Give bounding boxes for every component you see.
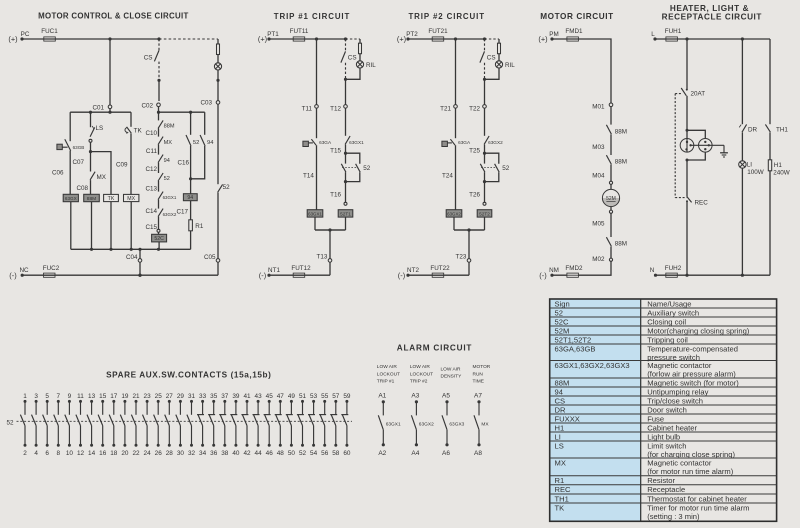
- wire: dashed bus to RIL branch: [346, 38, 361, 40]
- ground symbol: [720, 145, 728, 157]
- svg-text:A5: A5: [442, 392, 450, 399]
- spare aux contact 55/56: [319, 393, 329, 457]
- svg-text:29: 29: [177, 393, 185, 400]
- red indicating lamp RIL (trip2): [485, 54, 516, 80]
- svg-text:18: 18: [110, 450, 118, 457]
- svg-text:MOTOR: MOTOR: [473, 364, 491, 370]
- spare aux contact 23/24: [143, 393, 152, 457]
- svg-text:C11: C11: [146, 148, 158, 155]
- node M02: [592, 247, 612, 263]
- svg-text:63GX1,63GX2,63GX3: 63GX1,63GX2,63GX3: [555, 361, 630, 370]
- svg-text:MX: MX: [481, 421, 489, 427]
- node C04: [126, 249, 142, 277]
- wire: branch B to bottom bus: [91, 202, 93, 250]
- svg-text:MX: MX: [164, 140, 173, 146]
- svg-text:N: N: [650, 267, 655, 274]
- svg-text:94: 94: [555, 387, 563, 396]
- wire: lamp to C03: [217, 80, 219, 100]
- title: motor control & close circuit: [38, 11, 188, 20]
- fuse FUH1: [665, 28, 682, 41]
- svg-text:FMD1: FMD1: [565, 28, 583, 35]
- svg-text:T23: T23: [456, 254, 467, 261]
- svg-text:(forlow air pressure alarm): (forlow air pressure alarm): [647, 370, 736, 379]
- svg-text:M05: M05: [592, 221, 605, 228]
- svg-text:LS: LS: [555, 441, 564, 450]
- svg-text:TRIP #2: TRIP #2: [410, 379, 428, 385]
- svg-text:15: 15: [99, 393, 107, 400]
- svg-text:94: 94: [164, 158, 170, 164]
- svg-text:52: 52: [193, 140, 199, 146]
- wire: 94-box bottom: [189, 146, 205, 180]
- wire: top bus (+) to C01/CS: [22, 37, 161, 40]
- coil MX: [124, 194, 139, 202]
- svg-text:A8: A8: [474, 450, 482, 457]
- svg-text:94: 94: [187, 195, 193, 201]
- node C05: [204, 193, 220, 276]
- fuse FMD1: [565, 28, 583, 41]
- svg-text:16: 16: [99, 450, 107, 457]
- svg-text:41: 41: [243, 393, 251, 400]
- junction below CS: [157, 79, 160, 82]
- svg-text:52T1,52T2: 52T1,52T2: [555, 335, 592, 344]
- svg-text:52C: 52C: [555, 317, 569, 326]
- motor 52M: [602, 184, 619, 210]
- svg-text:34: 34: [199, 450, 207, 457]
- wire: CS to C02: [158, 80, 160, 101]
- contact 52 (branch E): [158, 173, 170, 182]
- wire: top bus PT2: [408, 37, 486, 40]
- svg-text:MX: MX: [555, 458, 566, 467]
- trip-close switch CS (trip2): [480, 39, 496, 79]
- svg-text:FUT21: FUT21: [428, 28, 448, 35]
- spare aux contact 19/20: [120, 393, 129, 457]
- svg-text:35: 35: [210, 393, 218, 400]
- wire: to motor: [610, 165, 612, 181]
- svg-text:Fuse: Fuse: [647, 414, 664, 423]
- svg-text:C01: C01: [92, 105, 104, 112]
- svg-text:A3: A3: [411, 392, 419, 399]
- svg-text:59: 59: [343, 393, 351, 400]
- svg-text:SPARE AUX.SW.CONTACTS (15a,15b: SPARE AUX.SW.CONTACTS (15a,15b): [106, 370, 271, 379]
- wire: T25 junction: [483, 145, 486, 155]
- svg-text:37: 37: [221, 393, 229, 400]
- terminal (+) PT1: [258, 31, 279, 44]
- fuse FUC2: [43, 265, 60, 277]
- wire: heater top rail: [655, 37, 770, 40]
- svg-text:8: 8: [57, 450, 61, 457]
- svg-text:TK: TK: [555, 503, 565, 512]
- coil 52T2: [477, 210, 492, 217]
- svg-text:10: 10: [66, 450, 74, 457]
- svg-text:55: 55: [321, 393, 329, 400]
- svg-text:CS: CS: [348, 55, 357, 62]
- contact 63GX2 (branch E): [158, 209, 177, 217]
- svg-text:(-): (-): [259, 271, 266, 280]
- wire: T11 to 63GA: [316, 108, 318, 138]
- svg-text:58: 58: [332, 450, 340, 457]
- svg-text:C08: C08: [76, 185, 88, 192]
- node T14: [303, 173, 314, 180]
- svg-text:63GA,63GB: 63GA,63GB: [555, 344, 596, 353]
- spare aux contact 35/36: [208, 393, 218, 457]
- resistor (RIL branch trip2): [498, 39, 501, 54]
- svg-text:(+): (+): [258, 35, 267, 44]
- terminal (-) NM: [539, 267, 559, 280]
- terminal (+) PM: [538, 31, 558, 44]
- wire: motor to 88M-3: [610, 213, 612, 237]
- wire: 52C to bottom bus: [158, 242, 160, 249]
- wire: to coil 52T1: [344, 182, 347, 206]
- spare aux contact 15/16: [98, 393, 107, 457]
- spare aux contact 11/12: [76, 393, 85, 457]
- svg-text:52C: 52C: [154, 236, 164, 242]
- svg-text:54: 54: [310, 450, 318, 457]
- svg-text:Name/Usage: Name/Usage: [647, 299, 691, 308]
- node C16: [178, 160, 190, 167]
- node C17: [177, 209, 189, 216]
- svg-text:49: 49: [288, 393, 296, 400]
- svg-text:CS: CS: [555, 396, 566, 405]
- auxiliary contact 52 pair (trip2): [480, 153, 510, 183]
- legend table: [550, 299, 777, 521]
- svg-text:3: 3: [34, 393, 38, 400]
- pressure switch 63GA (trip2): [442, 139, 471, 146]
- coil TK: [104, 194, 119, 202]
- wire: heater bottom rail: [656, 274, 771, 277]
- wire: 63GX1 to junction: [315, 217, 346, 230]
- spare aux contact 49/50: [286, 393, 296, 457]
- svg-text:42: 42: [243, 450, 251, 457]
- svg-text:20: 20: [121, 450, 129, 457]
- svg-text:FUH1: FUH1: [665, 28, 682, 35]
- node C15: [145, 224, 160, 232]
- wire: M03 segment: [610, 134, 612, 155]
- spare aux contact 31/32: [187, 393, 196, 457]
- spare aux contact 13/14: [87, 393, 96, 457]
- node C12: [145, 166, 157, 173]
- svg-text:51: 51: [299, 393, 307, 400]
- spare aux contact 9/10: [65, 393, 74, 457]
- svg-text:100W: 100W: [747, 169, 764, 176]
- spare aux contact 25/26: [154, 393, 163, 457]
- svg-text:56: 56: [321, 450, 329, 457]
- spare aux contact 57/58: [330, 393, 340, 457]
- node T15: [330, 148, 341, 155]
- svg-text:23: 23: [144, 393, 152, 400]
- svg-text:6: 6: [45, 450, 49, 457]
- svg-text:52T1: 52T1: [340, 211, 351, 216]
- coil 63GX2: [446, 210, 462, 217]
- svg-text:NM: NM: [549, 267, 559, 274]
- svg-text:DR: DR: [748, 127, 758, 134]
- wire: 20AT to receptacle: [686, 96, 688, 139]
- spare aux contact 43/44: [253, 393, 263, 457]
- svg-text:C04: C04: [126, 254, 138, 261]
- contact 88M (motor 2): [606, 155, 627, 165]
- svg-text:C05: C05: [204, 254, 216, 261]
- svg-text:C14: C14: [145, 208, 157, 215]
- svg-text:RIL: RIL: [505, 62, 515, 69]
- heater H1: [768, 160, 789, 177]
- node C14: [145, 208, 157, 215]
- wire: rail C02 to 94-box: [157, 111, 205, 114]
- svg-text:20AT: 20AT: [691, 90, 706, 97]
- node M03: [592, 144, 605, 151]
- svg-text:DR: DR: [555, 405, 566, 414]
- svg-text:C16: C16: [178, 160, 190, 167]
- svg-text:Thermostat for cabinet heater: Thermostat for cabinet heater: [647, 494, 747, 503]
- svg-text:MX: MX: [97, 174, 107, 181]
- red indicating lamp RIL (trip1): [346, 54, 377, 80]
- svg-text:52: 52: [223, 184, 231, 191]
- svg-text:Closing coil: Closing coil: [647, 317, 686, 326]
- alarm column A3-A4 (63GX2): [410, 364, 434, 457]
- spare aux contact 3/4: [32, 393, 39, 457]
- svg-text:M03: M03: [592, 144, 605, 151]
- svg-text:LOW AIR: LOW AIR: [410, 364, 431, 370]
- spare aux contact 17/18: [109, 393, 118, 457]
- svg-text:46: 46: [266, 450, 274, 457]
- svg-text:63GB: 63GB: [73, 145, 85, 150]
- pressure switch 63GA (trip1): [303, 139, 332, 146]
- svg-text:32: 32: [188, 450, 196, 457]
- junction below CS: [344, 78, 347, 81]
- svg-text:88M: 88M: [615, 241, 627, 248]
- svg-text:52: 52: [363, 165, 371, 172]
- svg-text:30: 30: [177, 450, 185, 457]
- svg-text:94: 94: [207, 140, 214, 146]
- contact MX (branch E): [158, 137, 172, 146]
- terminal L: [651, 31, 656, 41]
- spare aux contact 59/60: [341, 393, 351, 457]
- contact 94 (94-box): [200, 112, 214, 146]
- contact 63GX1 (trip1): [345, 108, 364, 145]
- svg-text:52: 52: [6, 420, 14, 427]
- svg-text:MX: MX: [127, 196, 135, 202]
- svg-text:Cabinet heater: Cabinet heater: [647, 423, 697, 432]
- wire: to trip2 T-nodes: [456, 39, 485, 105]
- spare aux contact 27/28: [165, 393, 174, 457]
- svg-text:A2: A2: [378, 450, 386, 457]
- wire: bottom rail (control): [22, 274, 218, 277]
- svg-text:63GX2: 63GX2: [447, 211, 461, 216]
- svg-text:C06: C06: [52, 170, 64, 177]
- node C08: [76, 185, 88, 192]
- svg-text:Door switch: Door switch: [647, 405, 687, 414]
- svg-text:T21: T21: [440, 106, 451, 113]
- svg-text:(+): (+): [8, 35, 17, 44]
- svg-text:T14: T14: [303, 173, 314, 180]
- svg-text:Sign: Sign: [555, 299, 570, 308]
- svg-text:28: 28: [166, 450, 174, 457]
- wire: trip2 merge bus: [454, 228, 485, 231]
- svg-text:(setting : 3 min): (setting : 3 min): [647, 512, 700, 521]
- svg-text:REC: REC: [555, 485, 572, 494]
- pressure switch 63GB: [57, 139, 84, 151]
- coil 63GX: [63, 194, 78, 201]
- mechanical link dashed line: [17, 420, 353, 422]
- thermostat TH1: [765, 124, 788, 133]
- svg-text:(-): (-): [398, 271, 405, 280]
- svg-text:C03: C03: [200, 100, 212, 107]
- svg-text:T12: T12: [330, 106, 341, 113]
- wire: left box top rail: [70, 111, 131, 114]
- svg-text:(-): (-): [9, 271, 16, 280]
- svg-text:48: 48: [277, 450, 285, 457]
- door switch DR: [739, 124, 757, 133]
- spare aux contact 53/54: [308, 393, 318, 457]
- node M01: [592, 103, 613, 111]
- svg-text:PT1: PT1: [267, 31, 279, 38]
- coil 52C: [152, 234, 167, 242]
- svg-text:25: 25: [155, 393, 163, 400]
- svg-text:13: 13: [88, 393, 96, 400]
- svg-text:47: 47: [277, 393, 285, 400]
- spare aux contact 37/38: [219, 393, 229, 457]
- limit switch LS: [90, 125, 103, 137]
- svg-text:36: 36: [210, 450, 218, 457]
- coil 88M: [84, 194, 100, 202]
- wire: TH1 to heater H1: [769, 132, 771, 159]
- svg-text:11: 11: [77, 393, 84, 400]
- svg-text:T25: T25: [469, 148, 480, 155]
- svg-text:Untipumping relay: Untipumping relay: [647, 387, 708, 396]
- svg-text:PM: PM: [549, 31, 558, 38]
- svg-text:19: 19: [121, 393, 129, 400]
- node T22: [469, 105, 486, 113]
- fuse FUC1: [41, 28, 58, 41]
- receptacle REC symbol: [680, 129, 724, 162]
- svg-text:50: 50: [288, 450, 296, 457]
- wire: receptacle branch upper: [686, 39, 688, 90]
- alarm column A7-A8 (MX): [473, 364, 491, 457]
- node below motor: [609, 210, 612, 213]
- wire: 52T2 to junction: [484, 217, 486, 230]
- wire: 94 coil to R1: [190, 201, 192, 220]
- svg-text:1: 1: [23, 393, 27, 400]
- svg-text:88M: 88M: [164, 123, 175, 129]
- svg-text:RIL: RIL: [366, 62, 376, 69]
- spare aux contact 33/34: [197, 393, 207, 457]
- wire: branch A to bottom bus: [70, 202, 72, 250]
- wire: branch E segments: [158, 112, 160, 234]
- light bulb LI: [739, 161, 764, 176]
- wire: C02 drop: [158, 107, 160, 113]
- svg-text:Magnetic switch (for motor): Magnetic switch (for motor): [647, 378, 739, 387]
- lamp branch resistor (control): [217, 44, 220, 55]
- svg-text:FUH2: FUH2: [665, 265, 682, 272]
- svg-text:M04: M04: [592, 173, 605, 180]
- spare aux contact 41/42: [241, 393, 251, 457]
- svg-text:H1: H1: [555, 423, 565, 432]
- svg-text:RUN: RUN: [473, 371, 484, 377]
- svg-text:TH1: TH1: [555, 494, 569, 503]
- svg-text:A4: A4: [411, 450, 419, 457]
- wire: branch D lower: [130, 133, 132, 194]
- node T21: [440, 105, 457, 113]
- wire: branch A lower: [69, 151, 71, 195]
- svg-text:T16: T16: [330, 192, 341, 199]
- svg-text:52: 52: [299, 450, 307, 457]
- wire: DR branch upper: [741, 39, 743, 124]
- resistor (RIL branch trip1): [359, 39, 362, 54]
- svg-text:A7: A7: [474, 392, 482, 399]
- svg-text:C15: C15: [145, 224, 157, 231]
- coil 63GX1: [307, 210, 323, 217]
- wire: branch D upper: [130, 112, 132, 127]
- svg-text:FUC2: FUC2: [43, 265, 60, 272]
- wire: dashed top bus CS to lamp branch: [159, 38, 218, 40]
- wire: 63GA to coil 63GX1: [316, 145, 318, 210]
- wire: bottom rail (trip1): [269, 274, 330, 276]
- svg-text:45: 45: [266, 393, 274, 400]
- node C07: [72, 159, 84, 166]
- svg-text:C10: C10: [145, 130, 157, 137]
- node C10: [145, 130, 157, 137]
- svg-text:52: 52: [502, 165, 510, 172]
- terminal (+) PC: [8, 31, 29, 44]
- svg-text:H1: H1: [774, 162, 783, 169]
- svg-text:88M: 88M: [87, 196, 97, 202]
- node C02: [141, 103, 160, 110]
- svg-text:CS: CS: [487, 55, 496, 62]
- node M04: [592, 173, 605, 180]
- svg-text:63GX3: 63GX3: [449, 421, 464, 427]
- fuse FUT21: [428, 28, 448, 41]
- svg-text:FUT12: FUT12: [291, 265, 311, 272]
- svg-text:38: 38: [221, 450, 229, 457]
- svg-text:TRIP #1: TRIP #1: [377, 379, 395, 385]
- wire: C03 to 52 contact: [217, 104, 219, 184]
- svg-text:L: L: [651, 31, 655, 38]
- spare aux contact 21/22: [131, 393, 140, 457]
- svg-text:C13: C13: [145, 186, 157, 193]
- svg-text:63GX1: 63GX1: [308, 211, 322, 216]
- label 52 (spare strip): [6, 420, 14, 427]
- node C13: [145, 186, 157, 193]
- svg-text:LS: LS: [96, 125, 104, 132]
- svg-text:63GX2: 63GX2: [419, 421, 434, 427]
- svg-text:(for motor run time alarm): (for motor run time alarm): [647, 467, 734, 476]
- wire: receptacle to REC contact: [686, 160, 688, 197]
- contact 88M (motor 3): [606, 237, 627, 247]
- svg-text:63GX1: 63GX1: [386, 421, 401, 427]
- svg-text:26: 26: [155, 450, 163, 457]
- node C11: [146, 148, 158, 155]
- svg-text:60: 60: [343, 450, 351, 457]
- svg-text:5: 5: [45, 393, 49, 400]
- svg-text:52: 52: [164, 176, 170, 182]
- node above motor: [609, 181, 612, 184]
- svg-text:17: 17: [110, 393, 118, 400]
- svg-text:RECEPTACLE CIRCUIT: RECEPTACLE CIRCUIT: [662, 13, 762, 22]
- wire: top bus PT1: [269, 37, 347, 40]
- svg-text:52T2: 52T2: [479, 211, 490, 216]
- node C01: [92, 105, 111, 112]
- spare aux contact 39/40: [230, 393, 240, 457]
- wire: DR to lamp LI: [741, 132, 743, 161]
- svg-text:TRIP #1 CIRCUIT: TRIP #1 CIRCUIT: [274, 12, 351, 21]
- svg-text:T26: T26: [469, 192, 480, 199]
- svg-text:22: 22: [132, 450, 140, 457]
- wire: trip1 merge bus: [315, 228, 346, 231]
- svg-text:63GX: 63GX: [65, 196, 77, 201]
- wire: branch B lower: [90, 180, 92, 194]
- svg-text:9: 9: [68, 393, 72, 400]
- svg-text:REC: REC: [695, 199, 709, 206]
- svg-text:FUC1: FUC1: [41, 28, 58, 35]
- svg-text:88M: 88M: [615, 159, 627, 166]
